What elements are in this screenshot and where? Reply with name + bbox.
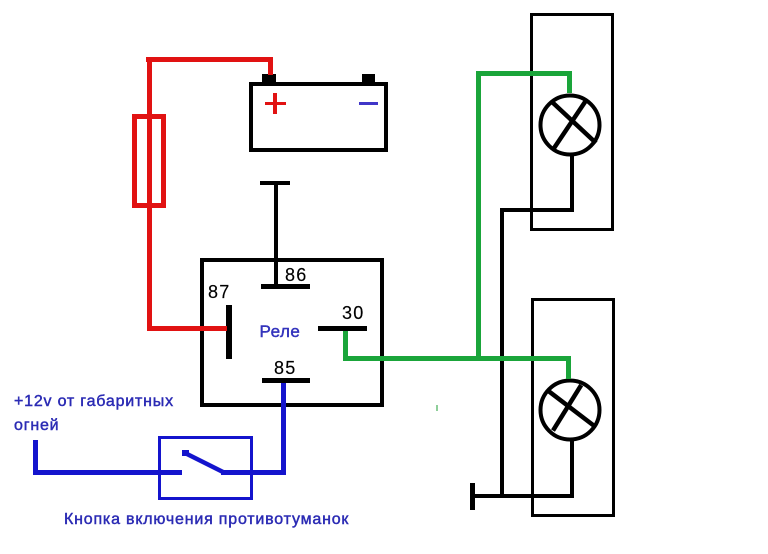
lamp HL1 xyxy=(535,90,605,160)
wire green: drop into bottom lamp xyxy=(566,356,571,379)
battery positive terminal post xyxy=(262,74,276,83)
wire green: top horizontal xyxy=(476,71,572,76)
switch SB1 box xyxy=(158,436,253,500)
wire black: top lamp to housing exit xyxy=(570,156,574,212)
pin label 86 xyxy=(285,266,307,284)
wire green: drop into top lamp xyxy=(567,71,572,93)
relay label xyxy=(260,323,301,340)
battery plus sign xyxy=(265,102,286,106)
caption: fog light switch xyxy=(64,512,349,528)
relay pin 30 contact bar xyxy=(318,326,367,332)
relay K1 body xyxy=(200,258,385,407)
relay pin 85 contact bar xyxy=(262,378,310,383)
wire green: riser to top lamp xyxy=(476,71,481,361)
wire black: ground horizontal xyxy=(472,494,573,498)
stray green mark xyxy=(436,405,439,411)
wire blue: switch right segment xyxy=(221,470,286,475)
wire green: drop from pin 30 xyxy=(343,331,348,361)
battery minus sign xyxy=(359,102,378,106)
wire blue: switch left segment xyxy=(33,470,182,475)
pin label 30 xyxy=(342,304,364,322)
ground terminal bar xyxy=(470,483,475,510)
relay pin 87 contact bar xyxy=(226,305,232,359)
switch SB1 lever xyxy=(178,446,230,478)
wire black: bottom lamp down xyxy=(570,441,574,498)
lamp HL2 xyxy=(535,375,605,445)
net label +12v from parking lights xyxy=(14,394,174,410)
lamp housing 1 (top) xyxy=(530,13,614,231)
lamp housing 2 (bottom) xyxy=(531,298,615,517)
wire red: vertical through fuse to relay level xyxy=(147,57,152,331)
wire blue: +12v riser xyxy=(33,440,38,475)
battery negative terminal post xyxy=(362,74,375,83)
battery GB1 body xyxy=(249,82,388,152)
terminal bar above relay (pin 86 lead top) xyxy=(260,181,290,185)
pin label 85 xyxy=(274,359,296,377)
wire black: horizontal inside housing 1 xyxy=(500,208,574,212)
wire black: pin 86 lead xyxy=(274,184,278,287)
relay pin 86 contact bar xyxy=(261,284,310,289)
wire red: drop to battery + terminal xyxy=(268,57,273,75)
wire blue: relay pin 85 drop xyxy=(281,383,286,475)
pin label 87 xyxy=(208,283,230,301)
wire red: horizontal into relay pin 87 xyxy=(147,326,227,331)
wire black: long ground riser xyxy=(500,208,504,498)
wire red: battery positive feed horizontal xyxy=(146,57,273,62)
wire green: main horizontal to lamps xyxy=(343,356,571,361)
fuse F1 xyxy=(132,114,166,208)
